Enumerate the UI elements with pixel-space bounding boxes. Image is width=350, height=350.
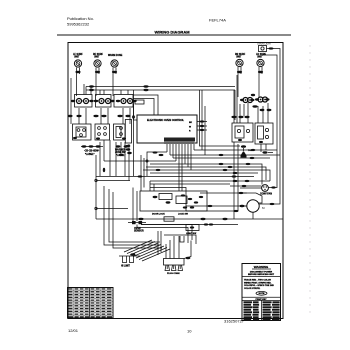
wires element row to EOC top	[133, 95, 158, 115]
right switch box 2	[255, 123, 273, 144]
warning box table	[244, 301, 280, 320]
vertical wires from EOC strip down	[167, 144, 194, 191]
left element pair 2	[94, 99, 115, 104]
lower small component right of sensor	[180, 225, 199, 243]
oven light box top right	[257, 43, 276, 52]
svg-text:*LABEL*: *LABEL*	[85, 153, 95, 156]
wire right bus	[260, 49, 281, 205]
bottom connector plug	[164, 236, 192, 275]
extra mid lines	[141, 155, 230, 211]
svg-text:UNIT: UNIT	[74, 57, 80, 59]
svg-text:10: 10	[187, 329, 192, 334]
svg-text:UNIT: UNIT	[257, 57, 263, 59]
boxes around element pairs	[75, 95, 93, 108]
oven sensor	[128, 188, 146, 233]
table text smudge	[69, 288, 113, 317]
svg-text:5995362232: 5995362232	[67, 22, 90, 27]
svg-text:CONV FAN: CONV FAN	[260, 193, 272, 196]
surface switch box 2	[95, 124, 110, 140]
markers on middle buses	[103, 149, 276, 226]
svg-text:Publication No.: Publication No.	[67, 16, 94, 21]
marker row above switches	[67, 115, 130, 117]
warmer unit circle	[108, 54, 123, 67]
left element pair 1	[71, 99, 94, 104]
svg-text:COLORFUL - SPECS THE 2ND: COLORFUL - SPECS THE 2ND	[244, 285, 274, 287]
LR surface unit circle	[256, 54, 267, 67]
warning box	[242, 264, 281, 321]
convection motor circle	[240, 200, 265, 219]
wire from EOC top to bus	[134, 104, 138, 120]
convection fan circle	[260, 185, 272, 196]
svg-text:ELECTRONIC OVEN CONTROL: ELECTRONIC OVEN CONTROL	[147, 119, 185, 122]
surface unit LF circle	[73, 54, 83, 67]
svg-text:UNIT: UNIT	[236, 57, 242, 59]
diagonal wire bundle	[124, 240, 170, 261]
svg-text:HI LIMIT: HI LIMIT	[121, 266, 131, 268]
left element pair 3	[116, 99, 137, 104]
svg-text:SENSOR: SENSOR	[134, 231, 144, 233]
wires around EOC right side	[200, 90, 241, 155]
svg-text:NOTE: NOTE	[259, 293, 265, 295]
electronic oven control box	[137, 115, 207, 143]
svg-text:DOOR LOCK: DOOR LOCK	[152, 214, 165, 216]
svg-text:316250727: 316250727	[224, 319, 245, 324]
right element pair 2	[255, 97, 271, 111]
surface unit RF circle	[93, 54, 104, 67]
wires to motor/fan	[240, 193, 262, 203]
left feed wires going down	[70, 78, 72, 124]
svg-text:WIRING DIAGRAM: WIRING DIAGRAM	[154, 30, 190, 35]
bracket under left switches	[81, 145, 103, 156]
diagram frame border	[68, 43, 283, 319]
horizontal distribution wires middle	[96, 150, 283, 225]
svg-text:UNIT: UNIT	[94, 57, 100, 59]
wire right bus 2	[262, 55, 277, 188]
svg-text:DISCONNECT POWER: DISCONNECT POWER	[250, 272, 273, 274]
svg-text:WIRES FIRST. STRIPE RED.: WIRES FIRST. STRIPE RED.	[244, 282, 272, 284]
left long vertical wires	[96, 90, 162, 248]
junction nodes open circles	[95, 160, 148, 210]
svg-text:LIGHT SW: LIGHT SW	[186, 233, 196, 235]
svg-text:WARMER: WARMER	[115, 149, 126, 152]
right element pair 1	[240, 98, 258, 108]
svg-text:FEFL74A: FEFL74A	[209, 18, 226, 23]
svg-text:W: W	[189, 127, 191, 129]
svg-text:WARNING: WARNING	[254, 265, 269, 269]
bracket under switch 3	[115, 145, 128, 157]
svg-text:12/01: 12/01	[68, 328, 79, 333]
EOC connector strip	[164, 138, 195, 145]
surface switch box 3	[114, 124, 127, 140]
svg-text:-CB-CB-HDW-: -CB-CB-HDW-	[84, 151, 99, 153]
svg-text:OVEN LIGHT: OVEN LIGHT	[257, 43, 272, 46]
surface switch box 1	[73, 124, 92, 140]
stems and markers below left circles	[75, 68, 117, 97]
svg-text:BEFORE SERVICING UNIT: BEFORE SERVICING UNIT	[248, 274, 275, 276]
vertical bundle above right switch	[234, 75, 268, 219]
marker row right	[231, 116, 249, 118]
components under right switches	[241, 94, 274, 158]
svg-text:WARM ZONE: WARM ZONE	[108, 54, 123, 57]
nested U box outlines lower-left	[104, 186, 160, 245]
right switch box 1	[232, 123, 253, 142]
door latch cluster	[140, 181, 207, 216]
svg-text:COLOR STRIPE.: COLOR STRIPE.	[244, 288, 261, 290]
svg-text:PLUG CONN: PLUG CONN	[167, 273, 180, 275]
top double bus lines	[86, 86, 235, 88]
left wiring color table	[68, 288, 114, 319]
wires below element pairs	[79, 108, 130, 124]
nested loop rectangle	[137, 225, 196, 256]
narrow box right of switch 3	[125, 120, 131, 144]
svg-text:BK: BK	[189, 122, 193, 124]
RR surface unit circle	[235, 54, 246, 67]
marker on y219 wire	[138, 218, 143, 220]
svg-text:LOCK SW: LOCK SW	[178, 214, 188, 216]
title underline	[57, 34, 291, 36]
hi-limit two prong component	[119, 253, 140, 267]
stems and markers below right circles	[237, 67, 263, 97]
scan artifact dots right margin	[309, 45, 310, 312]
svg-text:TRACE RED - TWO COLOR: TRACE RED - TWO COLOR	[244, 279, 271, 282]
